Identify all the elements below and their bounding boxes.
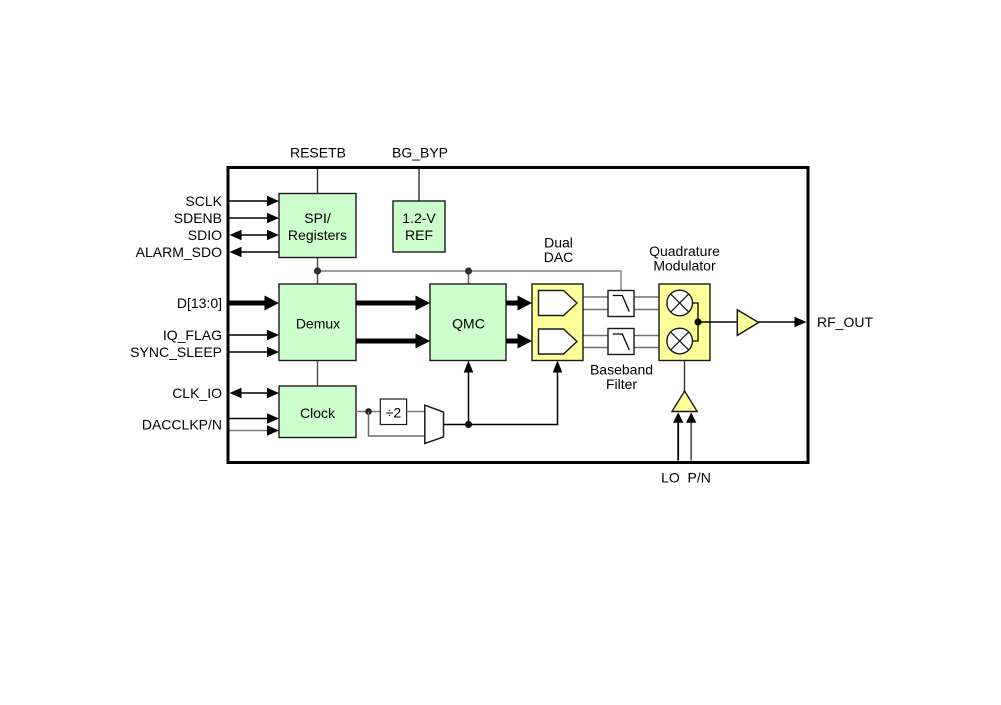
svg-text:Modulator: Modulator [653, 258, 716, 274]
wire clock to DAC [469, 361, 563, 425]
block Clock [279, 386, 356, 438]
pin SCLK [185, 193, 279, 209]
pin SDIO [188, 227, 279, 243]
svg-text:Demux: Demux [296, 316, 340, 332]
wire modulator LO [684, 361, 686, 392]
block QMC [430, 284, 506, 361]
LO buffer triangle [672, 391, 697, 412]
svg-text:QMC: QMC [452, 316, 485, 332]
wire divider to mux [407, 411, 425, 413]
wire SPI to Demux [317, 258, 319, 285]
pin IQ_FLAG [163, 327, 279, 343]
svg-text:D[13:0]: D[13:0] [177, 295, 222, 311]
svg-text:Filter: Filter [606, 376, 637, 392]
block Demux [279, 284, 356, 361]
pin CLK_IO [172, 385, 279, 401]
bus Demux to QMC Q [356, 334, 430, 349]
bus QMC to DAC Q [506, 334, 532, 349]
svg-text:SDENB: SDENB [174, 210, 222, 226]
svg-text:SPI/: SPI/ [304, 210, 331, 226]
svg-text:DAC: DAC [544, 249, 574, 265]
block Quadrature Modulator [659, 284, 710, 361]
svg-text:REF: REF [405, 227, 433, 243]
wire DAC Q diff pair [560, 336, 608, 348]
chip boundary [228, 168, 808, 463]
pin ALARM_SDO [136, 244, 279, 260]
junction dot [465, 421, 472, 428]
wire mux out [444, 424, 469, 426]
junction dot [365, 408, 372, 415]
label Baseband Filter [590, 362, 653, 393]
DAC Q converter [539, 329, 578, 354]
junction dot mixer sum [694, 318, 701, 325]
svg-text:BG_BYP: BG_BYP [392, 145, 448, 161]
bus Demux to QMC I [356, 296, 430, 311]
svg-text:1.2-V: 1.2-V [402, 210, 436, 226]
wire clock to QMC [464, 361, 474, 425]
label Dual DAC [544, 235, 574, 266]
wire RF out [759, 317, 807, 327]
wire clock out [356, 411, 380, 413]
filter Q [608, 329, 634, 355]
wire filter Q to mixer [634, 336, 672, 348]
svg-text:IQ_FLAG: IQ_FLAG [163, 327, 222, 343]
svg-text:ALARM_SDO: ALARM_SDO [136, 244, 222, 260]
block SPI/Registers [279, 194, 356, 258]
wire filter I to mixer [634, 297, 672, 310]
svg-text:Clock: Clock [300, 405, 336, 421]
mixer Q [667, 328, 693, 354]
wire DAC I diff pair [560, 297, 608, 310]
pin DACCLKN [230, 425, 280, 435]
wire LO P [673, 413, 683, 461]
svg-text:Registers: Registers [288, 227, 347, 243]
bus QMC to DAC I [506, 296, 532, 311]
svg-text:SDIO: SDIO [188, 227, 222, 243]
wire LO N [686, 413, 696, 461]
svg-text:÷2: ÷2 [386, 405, 402, 421]
pin SDENB [174, 210, 279, 226]
label Quadrature Modulator [649, 243, 720, 274]
mux clock select [425, 405, 444, 443]
wire modulator to amp [698, 321, 737, 323]
svg-text:DACCLKP/N: DACCLKP/N [142, 417, 222, 433]
wire QMC config drop [468, 271, 470, 284]
svg-text:RESETB: RESETB [290, 145, 346, 161]
amplifier [737, 310, 758, 336]
wire RESETB [317, 169, 319, 194]
wire BG_BYP [418, 169, 420, 201]
block 1.2-V REF [393, 201, 445, 252]
svg-text:SYNC_SLEEP: SYNC_SLEEP [130, 344, 222, 360]
wire mixer combine [691, 303, 698, 341]
wire SPI bus horizontal [318, 271, 622, 291]
pin DACCLKP [142, 413, 279, 432]
DAC I converter [539, 291, 578, 316]
pin D[13:0] bus [177, 295, 279, 311]
junction dot [314, 267, 321, 274]
svg-text:LO P/N: LO P/N [661, 470, 711, 486]
svg-text:CLK_IO: CLK_IO [172, 385, 222, 401]
filter I [608, 291, 634, 317]
svg-text:RF_OUT: RF_OUT [817, 314, 873, 330]
pin SYNC_SLEEP [130, 344, 279, 360]
block Dual DAC [532, 284, 583, 361]
wire Demux to Clock [317, 361, 319, 387]
wire divider bypass [369, 412, 425, 437]
junction dot [465, 267, 472, 274]
svg-text:SCLK: SCLK [185, 193, 222, 209]
mixer I [667, 290, 693, 316]
block divide-by-2 [380, 399, 406, 425]
